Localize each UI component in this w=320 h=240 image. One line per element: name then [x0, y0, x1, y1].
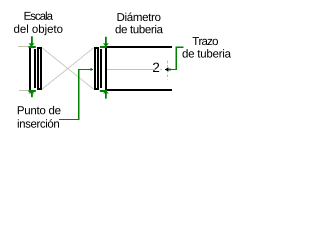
label Diámetro: [118, 13, 161, 22]
label de tuberia (top): [116, 25, 164, 33]
pipe centerline: [107, 69, 155, 70]
green arrow escala (down): [31, 36, 33, 44]
label Escala: [25, 11, 54, 19]
left fitting flange rect: [37, 47, 39, 90]
right fitting line 1: [105, 47, 107, 90]
label de tuberia (right): [183, 49, 232, 57]
black size-label arrow: [164, 67, 168, 71]
green tick diámetro bottom: [100, 90, 107, 92]
left fitting line 2: [34, 49, 36, 88]
right fitting line 2: [100, 49, 102, 88]
green tick escala bottom: [29, 90, 36, 92]
green arrow escala bottom (up): [29, 91, 35, 94]
green tick escala top: [29, 46, 36, 48]
valve X diagonal 1: [42, 48, 94, 89]
label inserción: [18, 119, 59, 128]
leader trazo de tuberia: [170, 47, 183, 69]
green arrow diámetro (down): [105, 37, 107, 44]
gray stub left bottom: [19, 90, 30, 91]
centerline dash after 2: [160, 69, 162, 70]
pipe bottom wall: [105, 89, 172, 91]
label del objeto: [14, 24, 63, 35]
green tick diámetro top: [100, 46, 107, 48]
valve X diagonal 2: [42, 48, 94, 89]
left fitting line 1: [29, 47, 31, 90]
pipe top wall: [105, 46, 172, 48]
gray dashed end tick: [167, 61, 169, 80]
label Punto de: [18, 106, 61, 114]
pipe size 2: [153, 63, 159, 72]
label Trazo: [193, 37, 219, 45]
green arrow diámetro bottom (up): [103, 91, 109, 94]
leader punto de inserción: [59, 70, 91, 120]
gray stub left top: [18, 46, 30, 47]
right fitting flange rect: [94, 47, 96, 90]
